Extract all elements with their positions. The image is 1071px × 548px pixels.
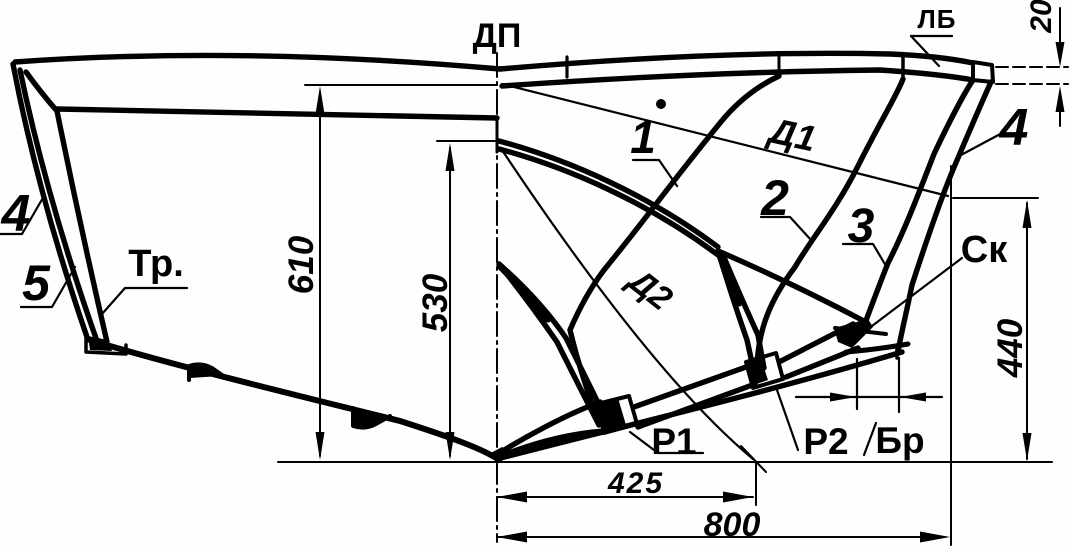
svg-text:530: 530	[416, 273, 455, 332]
svg-text:425: 425	[607, 467, 664, 500]
svg-text:610: 610	[282, 235, 321, 294]
svg-text:Бр: Бр	[875, 420, 924, 461]
svg-text:3: 3	[848, 200, 875, 253]
svg-text:Тр.: Тр.	[128, 243, 184, 285]
svg-text:4: 4	[999, 99, 1029, 157]
svg-text:ЛБ: ЛБ	[918, 4, 957, 34]
svg-text:1: 1	[630, 111, 656, 163]
svg-text:440: 440	[991, 318, 1030, 378]
svg-text:800: 800	[704, 506, 761, 544]
svg-text:Р1: Р1	[651, 421, 696, 462]
svg-text:Ск: Ск	[961, 229, 1008, 271]
svg-text:20: 20	[1025, 0, 1058, 34]
svg-text:4: 4	[1, 185, 31, 243]
svg-text:5: 5	[22, 255, 51, 311]
svg-text:2: 2	[760, 170, 789, 226]
svg-text:Р2: Р2	[803, 421, 848, 462]
svg-text:ДП: ДП	[473, 17, 522, 55]
